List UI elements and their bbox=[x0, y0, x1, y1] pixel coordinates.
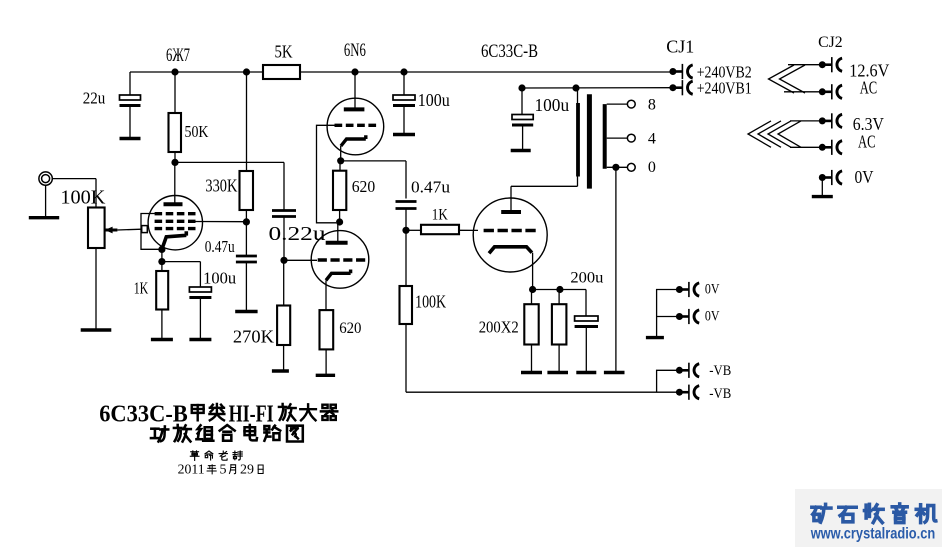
junction 200 resistor 2 bbox=[556, 286, 563, 293]
wire down to 100u bbox=[199, 262, 201, 287]
connector pin 6.3V bbox=[819, 113, 842, 128]
wire 12.6V a bbox=[788, 64, 822, 66]
capacitor 100u rail bbox=[393, 95, 415, 106]
wire jack to pot bbox=[52, 178, 96, 180]
resistor 100K bbox=[400, 286, 413, 324]
wire B+ to V2a anode bbox=[354, 72, 356, 109]
wire rail to 100u bbox=[403, 72, 405, 95]
ground 200#2 bbox=[547, 371, 568, 374]
wire to 200u bbox=[560, 289, 586, 291]
wire grid node to 270K bbox=[283, 260, 285, 305]
wire tap 4 bbox=[607, 137, 628, 139]
svg-text:-VB: -VB bbox=[709, 386, 731, 402]
svg-text:AC: AC bbox=[860, 78, 878, 98]
ground 1K bbox=[151, 338, 173, 341]
resistor 270K bbox=[277, 306, 290, 346]
svg-text:29: 29 bbox=[240, 463, 254, 478]
wire 0.47u to ground bbox=[245, 262, 247, 311]
wire anode lead V1 bbox=[174, 162, 176, 204]
wire 100u to ground bbox=[522, 125, 524, 150]
V1 grid g3 bbox=[155, 212, 196, 215]
V1 grid g1 bbox=[155, 227, 196, 230]
title glyphs jia-lei bbox=[192, 404, 225, 420]
V3 cathode bbox=[489, 247, 532, 254]
resistor 1K grid bbox=[421, 225, 459, 234]
wire pot to ground bbox=[95, 248, 97, 330]
wire V2a cathode lead bbox=[340, 146, 342, 161]
wire to 100u bbox=[162, 261, 201, 263]
resistor 330K bbox=[240, 171, 254, 210]
wire 22u to ground bbox=[129, 106, 131, 139]
wire down to pot top bbox=[95, 179, 97, 208]
wire down to 200u bbox=[585, 290, 587, 317]
V1 anode bbox=[164, 202, 183, 206]
svg-text:CJ2: CJ2 bbox=[818, 34, 843, 51]
resistor 50K bbox=[169, 113, 182, 152]
wire V3 cathode lead bbox=[532, 253, 534, 290]
svg-text:620: 620 bbox=[339, 320, 362, 337]
svg-text:200X2: 200X2 bbox=[479, 318, 519, 337]
date glyph nian bbox=[207, 465, 216, 474]
wire primary top bbox=[577, 88, 579, 103]
junction B+ / 6N6 anode bbox=[351, 68, 358, 75]
connector pin -VB a bbox=[676, 363, 699, 378]
title glyphs fang-da-qi bbox=[279, 404, 337, 420]
wire 0 tap to ground bbox=[615, 167, 617, 372]
connector pin +240VB1 bbox=[669, 80, 692, 95]
ground 0V pins bbox=[646, 336, 664, 339]
wire 100u to ground bbox=[199, 298, 201, 340]
connector pin 12.6V bbox=[819, 57, 842, 72]
svg-text:100K: 100K bbox=[415, 292, 446, 312]
wire to 100u bbox=[521, 88, 523, 115]
svg-text:0V: 0V bbox=[705, 282, 720, 298]
capacitor 0.47u coupling bbox=[396, 202, 417, 209]
wire 1K to 6C33C grid bbox=[460, 229, 478, 231]
junction B+ / 50K top bbox=[171, 68, 178, 75]
connector pin 12.6V AC bbox=[819, 84, 842, 99]
svg-text:200u: 200u bbox=[570, 270, 603, 287]
tube V3 6C33C-B envelope bbox=[473, 198, 547, 272]
svg-text:50K: 50K bbox=[185, 122, 210, 141]
wire tap 8 bbox=[607, 103, 628, 105]
svg-text:5: 5 bbox=[220, 463, 227, 478]
wire to 200 r1 bbox=[531, 290, 533, 305]
wire 1K to ground bbox=[161, 310, 163, 340]
V3 anode bbox=[501, 210, 521, 214]
connector pin 0V bbox=[819, 170, 842, 185]
wire 100u to ground bbox=[403, 106, 405, 135]
ground 100u bbox=[189, 338, 211, 341]
svg-text:5K: 5K bbox=[275, 42, 293, 62]
wire node to 100K bbox=[405, 230, 407, 286]
wire 620 to ground bbox=[325, 349, 327, 375]
ground 100u VB1 bbox=[511, 149, 531, 152]
terminal 4 bbox=[627, 134, 635, 142]
ground 0 tap bbox=[604, 371, 625, 374]
wire tap 0 bbox=[607, 166, 628, 168]
V1 cathode bbox=[162, 231, 186, 249]
connector pin 6.3V AC bbox=[819, 140, 842, 155]
wire 6.3V a bbox=[790, 120, 822, 122]
junction 50K / anode / coupling bbox=[171, 159, 178, 166]
junction 0.47u / 1K / 100K bbox=[402, 227, 409, 234]
V1 grid g2 bbox=[155, 220, 196, 223]
capacitor 22u bbox=[120, 95, 141, 106]
svg-text:270K: 270K bbox=[233, 327, 274, 347]
wire 12.6V b bbox=[784, 91, 822, 93]
junction 0.22u / 270K / grid bbox=[280, 257, 287, 264]
svg-text:0.47u: 0.47u bbox=[205, 237, 235, 256]
wire -VB bus bbox=[657, 370, 680, 392]
transformer secondary winding bbox=[603, 104, 607, 169]
connector pin 0V a bbox=[676, 282, 699, 297]
ground CJ2 0V bbox=[812, 195, 833, 198]
resistor 5K bbox=[263, 65, 300, 79]
svg-text:4: 4 bbox=[648, 131, 656, 148]
svg-text:2011: 2011 bbox=[178, 463, 205, 478]
wire to 620 upper bbox=[339, 161, 341, 171]
svg-text:620: 620 bbox=[352, 177, 376, 196]
wire V2b cathode lead bbox=[325, 280, 327, 310]
svg-text:6N6: 6N6 bbox=[344, 41, 366, 61]
svg-text:6Ж7: 6Ж7 bbox=[166, 45, 190, 66]
ground pot bbox=[81, 328, 112, 331]
svg-text:6C33C-B: 6C33C-B bbox=[481, 41, 538, 62]
V2b cathode bbox=[326, 270, 351, 281]
wire primary bottom bbox=[577, 177, 579, 187]
wire down to 0.47u bbox=[405, 161, 407, 199]
connector pin 0V b bbox=[676, 309, 699, 324]
wire rail to 22u bbox=[129, 72, 131, 95]
wire 270K to ground bbox=[283, 345, 285, 371]
wire V3 anode lead bbox=[510, 186, 512, 212]
resistor 200 #2 bbox=[552, 304, 567, 344]
wire cathode node bbox=[533, 289, 560, 291]
author glyphs bbox=[190, 451, 242, 460]
capacitor 100u cathode bbox=[189, 287, 211, 298]
wire 0V to ground bbox=[821, 178, 823, 197]
terminal 0 bbox=[627, 163, 635, 171]
wire wiper to grid bbox=[117, 228, 141, 231]
svg-text:100u: 100u bbox=[535, 95, 570, 115]
svg-text:0V: 0V bbox=[705, 308, 720, 324]
terminal 8 bbox=[627, 100, 635, 108]
junction V2a cathode / 620 bbox=[337, 157, 344, 164]
logo glyphs kuangshi shouyinji bbox=[812, 504, 936, 523]
V2b anode bbox=[326, 241, 348, 245]
pot wiper arrow bbox=[105, 227, 118, 234]
tube V2a 6N6 upper envelope bbox=[327, 98, 384, 155]
wire 200#1 to ground bbox=[531, 345, 533, 373]
svg-text:CJ1: CJ1 bbox=[666, 37, 694, 57]
heater winding 6.3V chevrons bbox=[748, 121, 801, 147]
svg-text:100u: 100u bbox=[418, 90, 450, 110]
junction V1 cathode bbox=[158, 246, 165, 253]
ground 620 lower bbox=[316, 374, 335, 377]
ground 270K bbox=[272, 369, 289, 372]
svg-text:0: 0 bbox=[648, 159, 656, 176]
svg-text:+240VB1: +240VB1 bbox=[697, 79, 752, 98]
svg-text:AC: AC bbox=[858, 132, 876, 152]
V2a anode bbox=[344, 107, 365, 111]
input jack J1 bbox=[39, 172, 52, 185]
junction B+ / 100u decoupling bbox=[400, 68, 407, 75]
svg-text:0.47u: 0.47u bbox=[411, 178, 451, 197]
tube V1 6Zh7 envelope bbox=[148, 196, 202, 250]
wire B+ rail left bbox=[130, 71, 263, 73]
capacitor 0.47u screen bypass bbox=[236, 256, 257, 262]
wire 0.22u to grid node bbox=[283, 217, 285, 261]
junction B+ / 5K left / 330K feed bbox=[243, 68, 250, 75]
resistor 620 lower bbox=[320, 310, 334, 349]
wire down to 0.22u bbox=[283, 162, 285, 210]
wire g2 to screen node bbox=[196, 221, 247, 223]
svg-text:330K: 330K bbox=[205, 176, 237, 196]
svg-text:22u: 22u bbox=[83, 89, 106, 108]
junction screen node bbox=[243, 218, 250, 225]
svg-text:HI-FI: HI-FI bbox=[229, 401, 274, 428]
wire 0V bus bbox=[657, 290, 680, 338]
svg-text:0V: 0V bbox=[855, 167, 874, 187]
ground 100u rail bbox=[393, 133, 415, 136]
wire V2b anode lead bbox=[337, 222, 339, 243]
date glyph ri bbox=[258, 465, 263, 473]
svg-text:1K: 1K bbox=[134, 279, 149, 298]
wire 200u to ground bbox=[585, 327, 587, 373]
connector pin -VB b bbox=[676, 385, 699, 400]
wire 330K to screen node bbox=[245, 210, 247, 222]
title line2 glyphs bbox=[151, 425, 303, 442]
wire to 1K grid stopper bbox=[406, 229, 421, 231]
ground input jack bbox=[29, 216, 59, 219]
wire cathode to 0.47u bbox=[341, 160, 406, 162]
transformer core bbox=[587, 94, 592, 188]
wire 200#2 to ground bbox=[558, 345, 560, 373]
ground 200u bbox=[576, 371, 596, 374]
wire B+ to 330K bbox=[246, 72, 248, 171]
V2a cathode bbox=[341, 135, 366, 146]
V1 grid cap square bbox=[142, 226, 148, 233]
wire anode to transformer bbox=[511, 185, 578, 187]
svg-text:1K: 1K bbox=[432, 207, 449, 224]
junction 620 / V2b anode / bracket bbox=[336, 218, 343, 225]
V3 grid bbox=[484, 229, 536, 232]
svg-text:100K: 100K bbox=[60, 187, 106, 209]
wire 6.3V b bbox=[790, 146, 822, 148]
wire -VB rail bbox=[406, 391, 679, 393]
wire B+ to 50K bbox=[174, 72, 176, 113]
junction cathode / 200 resistor bbox=[529, 286, 536, 293]
wire cathode node bbox=[161, 249, 163, 261]
transformer primary winding bbox=[576, 103, 580, 177]
date glyph yue bbox=[229, 465, 235, 474]
resistor 620 upper bbox=[333, 171, 346, 210]
wire jack to ground bbox=[45, 185, 47, 217]
svg-text:100u: 100u bbox=[203, 269, 236, 288]
resistor 1K bbox=[156, 271, 168, 310]
wire 50K to anode node bbox=[174, 152, 176, 162]
tube V2b 6N6 lower envelope bbox=[311, 231, 369, 289]
heater winding 12.6V chevrons bbox=[769, 65, 806, 93]
junction VB1 / 100u bbox=[518, 84, 525, 91]
V2b grid bbox=[318, 258, 366, 261]
connector pin +240VB2 bbox=[669, 64, 692, 79]
junction 0 tap bbox=[612, 164, 619, 171]
potentiometer 100K bbox=[88, 208, 105, 249]
junction VB1 / primary bbox=[572, 84, 579, 91]
svg-text:-VB: -VB bbox=[709, 363, 731, 379]
wire 620 to node bbox=[339, 210, 341, 222]
wire V2a grid bracket bbox=[317, 125, 337, 223]
capacitor 200u bbox=[575, 316, 598, 327]
ground 200#1 bbox=[521, 371, 542, 374]
V2a grid bbox=[335, 124, 377, 127]
junction cathode / 1K / 100u bbox=[158, 258, 165, 265]
wire +240VB1 rail bbox=[522, 87, 673, 89]
wire g3-cathode bracket bbox=[141, 214, 162, 250]
wire 0.47u to grid node bbox=[405, 209, 407, 231]
wire to 200 r2 bbox=[558, 290, 560, 305]
resistor 200 #1 bbox=[524, 304, 538, 344]
svg-text:www.crystalradio.cn: www.crystalradio.cn bbox=[810, 526, 935, 543]
capacitor 100u VB1 bbox=[512, 115, 533, 126]
wire 100K to -VB rail bbox=[405, 324, 407, 392]
svg-text:6C33C-B: 6C33C-B bbox=[99, 401, 188, 428]
wire to 1K bbox=[161, 262, 163, 271]
wire anode node to 0.22u bbox=[175, 161, 284, 163]
wire B+ rail right bbox=[300, 71, 673, 73]
capacitor 0.22u bbox=[272, 211, 296, 217]
logo backdrop bbox=[795, 489, 942, 547]
wire to V2b grid bbox=[284, 259, 317, 261]
ground 22u bbox=[120, 137, 141, 140]
ground 0.47u bbox=[235, 310, 257, 313]
svg-text:8: 8 bbox=[648, 97, 656, 114]
wire screen node to 0.47u bbox=[245, 222, 247, 256]
